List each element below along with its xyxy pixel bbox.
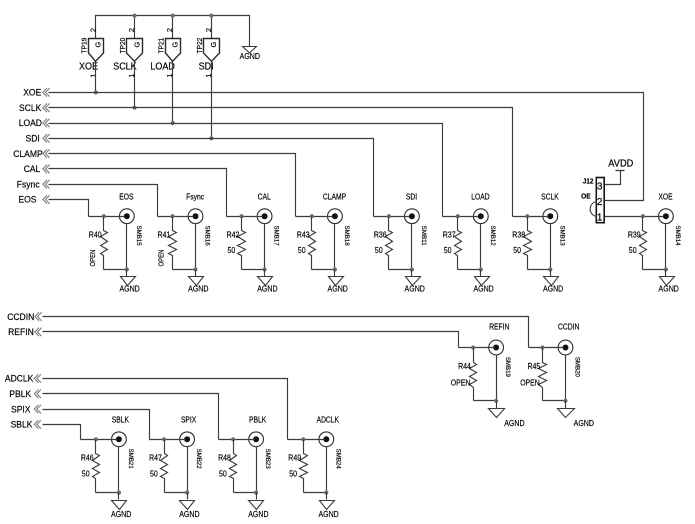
svg-text:XOE: XOE [23, 88, 41, 98]
svg-text:SCLK: SCLK [113, 62, 137, 73]
junction TP21 pin 1 on LOAD net [171, 121, 175, 125]
wire Fsync net [49, 185, 158, 217]
ground AGND (SMB17) [258, 277, 273, 286]
svg-text:CCDIN: CCDIN [7, 312, 34, 322]
svg-text:AGND: AGND [318, 510, 338, 519]
wire ground node to AGND symbol [665, 270, 667, 277]
svg-text:AGND: AGND [188, 285, 208, 294]
wire R41 bottom to ground node [173, 269, 196, 271]
wire CLAMP net into SMB18 [296, 216, 333, 218]
junction ground node SMB23 [254, 491, 258, 495]
wire R43 bottom to ground node [312, 269, 335, 271]
svg-text:G: G [94, 41, 103, 47]
wire R36 bottom to ground node [389, 269, 412, 271]
wire R47 bottom to ground node [165, 492, 188, 494]
wire ground node to AGND symbol [496, 401, 498, 409]
svg-text:AGND: AGND [543, 285, 563, 294]
ground AGND (SMB23) [249, 501, 264, 510]
ground AGND (SMB12) [475, 277, 490, 286]
ground AGND (SMB13) [544, 277, 559, 286]
junction R42 top node [240, 214, 244, 218]
wire SBLK net into SMB21 [81, 439, 117, 441]
ground AGND (SMB24) [320, 501, 335, 510]
junction R40 top node [102, 214, 106, 218]
SMB connector SMB15 (EOS) [119, 192, 142, 245]
wire R48 bottom to ground node [234, 492, 257, 494]
svg-text:AGND: AGND [504, 419, 524, 428]
wire SMB23 shield down to ground node [256, 447, 258, 493]
ground AGND (SMB21) [112, 501, 127, 510]
wire ground node to AGND symbol [565, 401, 567, 409]
svg-text:SDI: SDI [26, 134, 40, 144]
svg-text:50: 50 [150, 469, 158, 478]
junction R46 top node [94, 437, 98, 441]
svg-text:50: 50 [289, 469, 297, 478]
resistor R38 [512, 217, 531, 270]
svg-text:ADCLK: ADCLK [5, 374, 34, 384]
wire SMB13 shield down to ground node [550, 224, 552, 270]
svg-text:50: 50 [298, 246, 306, 255]
svg-text:AGND: AGND [574, 419, 594, 428]
svg-text:2: 2 [204, 28, 213, 32]
svg-text:AGND: AGND [659, 285, 679, 294]
junction ground node SMB18 [333, 267, 337, 271]
wire CLAMP net [49, 154, 296, 217]
ground AGND (SMB15) [121, 277, 136, 286]
wire TP20 pin 2 to ground rail [134, 16, 136, 39]
wire ground node to AGND symbol [334, 270, 336, 277]
wire ADCLK net into SMB24 [288, 439, 325, 441]
svg-text:SMB15: SMB15 [135, 226, 142, 246]
ground AGND (SMB14) [660, 277, 675, 286]
resistor R48 [218, 440, 236, 493]
SMB connector SMB11 (SDI) [405, 192, 428, 245]
svg-text:50: 50 [228, 246, 236, 255]
junction ground node SMB21 [117, 491, 121, 495]
svg-text:SMB18: SMB18 [343, 226, 350, 246]
ground AGND (SMB18) [329, 277, 344, 286]
svg-text:AGND: AGND [111, 510, 131, 519]
SMB connector SMB16 (Fsync) [186, 192, 210, 245]
svg-text:SMB12: SMB12 [489, 226, 496, 246]
wire CAL net [49, 169, 227, 217]
junction ground node SMB19 [494, 399, 498, 403]
junction R38 top node [525, 214, 529, 218]
resistor R45 [528, 348, 547, 401]
svg-text:SMB13: SMB13 [558, 226, 565, 246]
svg-text:CAL: CAL [24, 164, 41, 174]
junction TP21 pin 2 on ground rail [171, 14, 175, 18]
svg-text:PBLK: PBLK [249, 416, 267, 425]
svg-text:R40: R40 [89, 231, 102, 240]
wire PBLK net into SMB23 [219, 439, 255, 441]
wire R40 bottom to ground node [104, 269, 127, 271]
svg-text:LOAD: LOAD [471, 192, 489, 201]
svg-text:EOS: EOS [119, 192, 134, 201]
resistor R36 [374, 217, 393, 270]
svg-text:REFIN: REFIN [489, 323, 509, 332]
svg-text:R43: R43 [297, 231, 310, 240]
SMB connector SMB13 (SCLK) [541, 192, 565, 245]
svg-text:CLAMP: CLAMP [13, 149, 43, 159]
resistor R49 [288, 440, 307, 493]
junction ground node SMB17 [263, 267, 267, 271]
SMB connector SMB21 (SBLK) [112, 416, 135, 469]
svg-text:G: G [132, 41, 141, 47]
junction TP22 pin 1 on SDI net [209, 136, 213, 140]
test point TP20 [118, 28, 142, 78]
jumper arc J12 pins 1-2 [590, 202, 596, 217]
ground AGND (test point rail) [243, 47, 257, 53]
svg-text:R37: R37 [443, 231, 456, 240]
wire SCLK net [49, 108, 513, 217]
wire R38 bottom to ground node [528, 269, 551, 271]
wire SDI net [49, 139, 374, 217]
wire SPIX net into SMB22 [150, 439, 186, 441]
svg-text:LOAD: LOAD [150, 62, 175, 73]
resistor R40 [89, 217, 108, 270]
svg-text:SMB23: SMB23 [264, 449, 271, 469]
resistor R44 [458, 348, 476, 401]
svg-text:SBLK: SBLK [11, 420, 34, 430]
svg-text:OPEN: OPEN [520, 378, 540, 387]
svg-text:OPEN: OPEN [451, 378, 471, 387]
svg-text:2: 2 [127, 28, 136, 32]
junction R36 top node [387, 214, 391, 218]
svg-text:SPIX: SPIX [181, 416, 197, 425]
SMB connector SMB12 (LOAD) [471, 192, 496, 245]
SMB connector SMB19 (REFIN) [489, 323, 512, 378]
resistor R42 [227, 217, 246, 270]
svg-text:TP21: TP21 [156, 38, 165, 54]
wire J12 pin 1 to SMB14 [605, 216, 664, 218]
junction ground node SMB22 [185, 491, 189, 495]
junction R39 top node [641, 214, 645, 218]
wire ground node to AGND symbol [480, 270, 482, 277]
test point TP21 [156, 28, 180, 78]
connector J12 [583, 177, 605, 224]
wire TP21 pin 2 to ground rail [172, 16, 174, 39]
svg-text:R48: R48 [218, 454, 231, 463]
svg-text:SMB19: SMB19 [504, 357, 511, 377]
svg-text:SMB22: SMB22 [195, 449, 202, 469]
wire Fsync net into SMB16 [158, 216, 194, 218]
svg-text:2: 2 [165, 28, 174, 32]
wire SPIX net [43, 410, 150, 440]
wire SMB21 shield down to ground node [118, 447, 120, 493]
junction R41 top node [170, 214, 174, 218]
svg-text:50: 50 [444, 246, 452, 255]
svg-text:SMB17: SMB17 [273, 226, 280, 246]
junction R43 top node [310, 214, 314, 218]
wire TP21 pin 1 down to LOAD net [172, 62, 174, 124]
svg-text:50: 50 [82, 469, 90, 478]
wire ground node to AGND symbol [187, 493, 189, 500]
wire SBLK net [43, 425, 81, 440]
svg-text:REFIN: REFIN [8, 327, 34, 337]
svg-text:CCDIN: CCDIN [558, 323, 579, 332]
svg-text:SPIX: SPIX [11, 404, 31, 414]
wire SMB20 shield down to ground node [565, 355, 567, 401]
wire TP22 pin 1 down to SDI net [211, 62, 213, 139]
wire LOAD net [49, 124, 443, 217]
ground AGND (SMB20) [558, 409, 575, 418]
svg-text:3: 3 [597, 181, 603, 192]
SMB connector SMB22 (SPIX) [180, 416, 202, 469]
svg-text:AGND: AGND [473, 285, 493, 294]
SMB connector SMB17 (CAL) [257, 192, 280, 245]
svg-text:AGND: AGND [240, 52, 260, 61]
junction ground node SMB16 [193, 267, 197, 271]
svg-text:2: 2 [88, 28, 97, 32]
svg-text:G: G [171, 41, 180, 47]
wire AVDD to J12 pin 3 [605, 171, 621, 185]
ground AGND (SMB22) [180, 501, 195, 510]
wire CCDIN net [43, 317, 529, 348]
wire SDI net into SMB11 [374, 216, 410, 218]
wire CAL net into SMB17 [227, 216, 263, 218]
wire ground node to AGND symbol [256, 493, 258, 500]
SMB connector SMB24 (ADCLK) [317, 416, 342, 469]
junction ground node SMB13 [548, 267, 552, 271]
wire ground rail from TP19 pin 2 to AGND [96, 16, 250, 47]
wire XOE net to J12 pin 2 [49, 93, 644, 201]
svg-text:J12: J12 [583, 177, 594, 186]
wire EOS net [49, 200, 89, 217]
resistor R47 [149, 440, 167, 493]
wire R39 bottom to ground node [643, 269, 666, 271]
junction ground node SMB15 [125, 267, 129, 271]
svg-text:R36: R36 [374, 231, 387, 240]
svg-text:Fsync: Fsync [186, 192, 204, 201]
wire SMB22 shield down to ground node [187, 447, 189, 493]
wire R45 bottom to ground node [543, 400, 566, 402]
svg-text:OPEN: OPEN [90, 250, 97, 267]
wire TP20 pin 1 down to SCLK net [134, 62, 136, 108]
svg-text:R45: R45 [528, 362, 541, 371]
resistor R43 [297, 217, 316, 270]
svg-text:50: 50 [375, 246, 383, 255]
svg-text:OE: OE [581, 191, 591, 200]
wire PBLK net [43, 394, 219, 440]
svg-text:SMB20: SMB20 [574, 357, 581, 377]
svg-text:50: 50 [629, 246, 637, 255]
svg-text:SMB24: SMB24 [334, 449, 341, 469]
wire SMB16 shield down to ground node [195, 224, 197, 270]
svg-text:1: 1 [597, 212, 603, 223]
svg-text:2: 2 [597, 197, 603, 208]
svg-text:R42: R42 [227, 231, 240, 240]
svg-text:AGND: AGND [119, 285, 139, 294]
resistor R46 [81, 440, 100, 493]
junction R37 top node [456, 214, 460, 218]
wire ground node to AGND symbol [326, 493, 328, 500]
svg-text:TP20: TP20 [118, 38, 127, 54]
svg-text:AVDD: AVDD [608, 158, 633, 169]
junction R44 top node [471, 345, 475, 349]
junction ground node SMB14 [664, 267, 668, 271]
junction ground node SMB12 [479, 267, 483, 271]
svg-text:SDI: SDI [406, 192, 417, 201]
svg-text:CLAMP: CLAMP [323, 192, 347, 201]
svg-text:EOS: EOS [18, 195, 36, 205]
svg-text:TP19: TP19 [80, 38, 89, 54]
wire SMB14 shield down to ground node [665, 224, 667, 270]
SMB connector SMB14 (XOE) [658, 192, 681, 245]
wire SMB15 shield down to ground node [126, 224, 128, 270]
svg-text:SCLK: SCLK [19, 103, 42, 113]
wire SCLK net into SMB13 [513, 216, 549, 218]
wire TP22 pin 2 to ground rail [211, 16, 213, 39]
svg-text:SMB21: SMB21 [127, 449, 134, 469]
wire SMB24 shield down to ground node [326, 447, 328, 493]
wire TP19 pin 1 down to XOE net [95, 62, 97, 93]
svg-text:AGND: AGND [248, 510, 268, 519]
svg-text:SMB16: SMB16 [204, 226, 211, 246]
resistor R37 [443, 217, 462, 270]
SMB connector SMB18 (CLAMP) [323, 192, 350, 245]
SMB connector SMB23 (PBLK) [249, 416, 272, 469]
svg-text:OPEN: OPEN [159, 250, 166, 267]
svg-text:SCLK: SCLK [541, 192, 559, 201]
wire R49 bottom to ground node [304, 492, 327, 494]
wire ground node to AGND symbol [264, 270, 266, 277]
wire CCDIN net into SMB20 [529, 347, 564, 349]
wire EOS net into SMB15 [89, 216, 125, 218]
svg-text:AGND: AGND [328, 285, 348, 294]
svg-text:50: 50 [219, 469, 227, 478]
wire SMB18 shield down to ground node [334, 224, 336, 270]
wire SMB11 shield down to ground node [411, 224, 413, 270]
svg-text:TP22: TP22 [195, 38, 204, 54]
ground AGND (SMB16) [189, 277, 204, 286]
wire SMB19 shield down to ground node [496, 355, 498, 401]
svg-text:Fsync: Fsync [17, 179, 40, 189]
svg-text:G: G [209, 41, 218, 47]
svg-text:R41: R41 [158, 231, 171, 240]
wire ground node to AGND symbol [411, 270, 413, 277]
ground AGND (SMB11) [406, 277, 421, 286]
wire ground node to AGND symbol [550, 270, 552, 277]
svg-text:50: 50 [513, 246, 521, 255]
svg-text:SMB14: SMB14 [674, 226, 681, 246]
svg-text:R47: R47 [149, 454, 162, 463]
resistor R39 [628, 217, 647, 270]
wire REFIN net into SMB19 [459, 347, 495, 349]
junction ground node SMB11 [410, 267, 414, 271]
wire R46 bottom to ground node [96, 492, 119, 494]
wire ground node to AGND symbol [118, 493, 120, 500]
test point TP22 [195, 28, 219, 78]
junction TP20 pin 1 on SCLK net [132, 106, 136, 110]
svg-text:R38: R38 [512, 231, 525, 240]
svg-text:AGND: AGND [405, 285, 425, 294]
wire ground node to AGND symbol [126, 270, 128, 277]
svg-text:XOE: XOE [658, 192, 673, 201]
junction TP19 pin 1 on XOE net [94, 90, 98, 94]
svg-text:SBLK: SBLK [112, 416, 130, 425]
wire REFIN net [43, 332, 459, 348]
svg-text:PBLK: PBLK [9, 389, 32, 399]
junction TP20 pin 2 on ground rail [132, 14, 136, 18]
junction R47 top node [162, 437, 166, 441]
svg-text:AGND: AGND [179, 510, 199, 519]
junction ground node SMB24 [324, 491, 328, 495]
wire R42 bottom to ground node [242, 269, 265, 271]
power AVDD [608, 158, 633, 170]
SMB connector SMB20 (CCDIN) [558, 323, 581, 378]
svg-text:SMB11: SMB11 [420, 226, 427, 246]
ground AGND (SMB19) [489, 409, 505, 418]
svg-text:CAL: CAL [258, 192, 271, 201]
junction ground node SMB20 [563, 399, 567, 403]
svg-text:LOAD: LOAD [19, 118, 43, 128]
test point TP19 [80, 28, 104, 78]
svg-text:ADCLK: ADCLK [317, 416, 340, 425]
svg-text:R46: R46 [81, 454, 94, 463]
svg-text:R44: R44 [458, 362, 471, 371]
svg-text:R39: R39 [628, 231, 641, 240]
wire R44 bottom to ground node [474, 400, 497, 402]
junction R48 top node [231, 437, 235, 441]
junction R49 top node [301, 437, 305, 441]
wire ADCLK net [43, 379, 288, 440]
junction TP22 pin 2 on ground rail [209, 14, 213, 18]
resistor R41 [158, 217, 177, 270]
wire SMB12 shield down to ground node [480, 224, 482, 270]
junction R45 top node [540, 345, 544, 349]
wire LOAD net into SMB12 [443, 216, 479, 218]
wire R37 bottom to ground node [458, 269, 481, 271]
wire ground node to AGND symbol [195, 270, 197, 277]
svg-text:R49: R49 [288, 454, 301, 463]
svg-text:AGND: AGND [257, 285, 277, 294]
wire SMB17 shield down to ground node [264, 224, 266, 270]
